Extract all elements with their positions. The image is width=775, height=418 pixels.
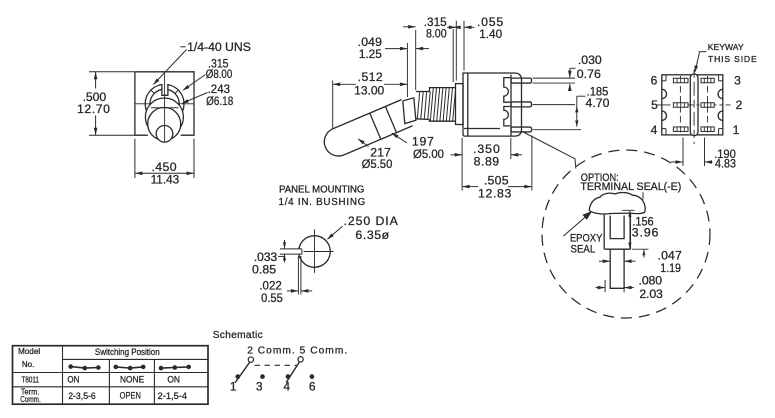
svg-text:1/4-40 UNS: 1/4-40 UNS xyxy=(187,40,251,54)
svg-text:0.85: 0.85 xyxy=(252,262,276,276)
svg-text:.512: .512 xyxy=(358,70,383,84)
svg-text:Comm.: Comm. xyxy=(20,395,41,404)
svg-text:8.00: 8.00 xyxy=(426,27,447,41)
svg-text:2: 2 xyxy=(736,98,743,112)
svg-text:Ø5.00: Ø5.00 xyxy=(413,147,444,161)
svg-text:6: 6 xyxy=(309,379,316,393)
svg-text:THIS SIDE: THIS SIDE xyxy=(708,54,757,64)
svg-text:PANEL MOUNTING: PANEL MOUNTING xyxy=(279,184,364,195)
svg-text:4.83: 4.83 xyxy=(715,157,736,171)
svg-text:1.19: 1.19 xyxy=(660,261,681,275)
svg-text:2-1,5-4: 2-1,5-4 xyxy=(158,391,188,402)
svg-text:T8011: T8011 xyxy=(22,375,40,384)
svg-text:6: 6 xyxy=(651,74,658,88)
svg-text:Schematic: Schematic xyxy=(213,330,263,341)
svg-text:NONE: NONE xyxy=(120,375,144,385)
svg-text:OPEN: OPEN xyxy=(120,390,141,401)
svg-text:6.35ø: 6.35ø xyxy=(355,228,389,242)
svg-text:Ø5.50: Ø5.50 xyxy=(362,157,393,171)
svg-text:.080: .080 xyxy=(639,274,663,288)
svg-text:1: 1 xyxy=(733,123,740,137)
svg-text:1.25: 1.25 xyxy=(359,47,382,61)
svg-text:KEYWAY: KEYWAY xyxy=(708,42,744,52)
svg-text:2 Comm. 5 Comm.: 2 Comm. 5 Comm. xyxy=(247,346,347,357)
svg-text:13.00: 13.00 xyxy=(354,83,384,97)
svg-text:Switching Position: Switching Position xyxy=(95,346,160,357)
svg-text:1.40: 1.40 xyxy=(479,27,502,41)
svg-text:4.70: 4.70 xyxy=(586,96,610,110)
svg-text:SEAL: SEAL xyxy=(571,244,596,256)
svg-text:Ø6.18: Ø6.18 xyxy=(206,94,233,108)
svg-text:1: 1 xyxy=(230,379,237,393)
svg-text:0.55: 0.55 xyxy=(261,291,283,305)
svg-text:ON: ON xyxy=(167,375,180,385)
svg-text:8.89: 8.89 xyxy=(474,154,500,168)
svg-text:12.83: 12.83 xyxy=(478,186,512,200)
svg-text:ON: ON xyxy=(67,375,79,385)
svg-text:3: 3 xyxy=(256,379,263,393)
svg-text:0.76: 0.76 xyxy=(577,67,601,81)
svg-text:2-3,5-6: 2-3,5-6 xyxy=(68,391,96,402)
svg-text:No.: No. xyxy=(22,359,35,369)
svg-text:EPOXY: EPOXY xyxy=(570,232,603,244)
svg-text:3: 3 xyxy=(734,74,741,88)
svg-text:1/4 IN. BUSHING: 1/4 IN. BUSHING xyxy=(279,197,366,208)
svg-text:.250 DIA: .250 DIA xyxy=(344,214,399,228)
svg-text:4: 4 xyxy=(283,379,290,393)
svg-text:.505: .505 xyxy=(484,173,509,187)
svg-text:12.70: 12.70 xyxy=(77,102,110,116)
svg-text:Ø8.00: Ø8.00 xyxy=(206,67,233,81)
svg-text:TERMINAL SEAL(-E): TERMINAL SEAL(-E) xyxy=(580,181,681,193)
svg-text:11.43: 11.43 xyxy=(151,173,180,187)
svg-text:4: 4 xyxy=(651,123,658,137)
svg-text:Model: Model xyxy=(18,346,40,356)
svg-text:5: 5 xyxy=(651,98,658,112)
svg-text:3.96: 3.96 xyxy=(632,226,659,240)
svg-text:2.03: 2.03 xyxy=(639,287,663,301)
svg-text:.030: .030 xyxy=(578,53,602,67)
